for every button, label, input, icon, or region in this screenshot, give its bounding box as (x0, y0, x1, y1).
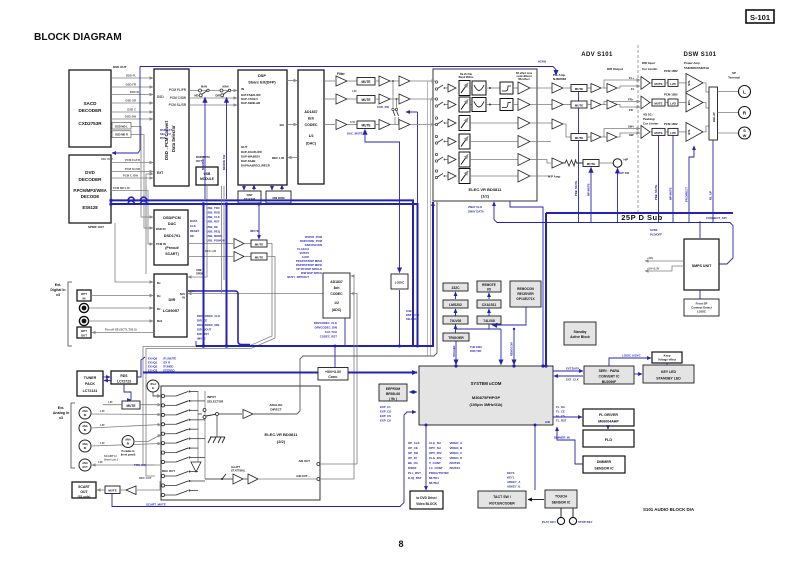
svg-text:DSD C: DSD C (127, 108, 136, 112)
wire ucom to eeprom arrows (410, 391, 418, 393)
svg-text:PCM C /SW: PCM C /SW (123, 174, 138, 178)
wire DIR control elbow blue (188, 291, 250, 345)
svg-text:GP1UE271X: GP1UE271X (516, 297, 535, 301)
svg-text:MAN: MAN (223, 85, 229, 89)
labels EXP port (380, 405, 392, 423)
elecvr row6 internals (435, 169, 551, 184)
svg-text:DSD OUT: DSD OUT (113, 65, 127, 69)
svg-text:REMOCON: REMOCON (517, 287, 534, 291)
wire DSD MD R (111, 131, 153, 228)
wire sur sw control (406, 111, 418, 113)
svg-text:D/RST: D/RST (408, 466, 417, 470)
svg-text:FL_CE: FL_CE (556, 410, 565, 414)
svg-text:/MUTE: /MUTE (197, 337, 206, 341)
svg-text:SCART In: SCART In (104, 454, 117, 458)
svg-text:USB_CLK: USB_CLK (207, 215, 220, 219)
svg-text:R: R (743, 111, 747, 117)
svg-text:OUT: OUT (196, 159, 202, 163)
wire keep to keyled (666, 363, 668, 365)
svg-text:STOP KEY: STOP KEY (578, 520, 593, 524)
svg-text:BTL: BTL (687, 129, 691, 135)
svg-text:FL_DA: FL_DA (556, 405, 565, 409)
wire analog direct to adc (253, 202, 437, 414)
wire sur control vertical (417, 112, 419, 346)
block 232C (443, 283, 468, 291)
svg-text:USB_REQ: USB_REQ (207, 230, 221, 234)
svg-text:DSD: DSD (157, 95, 164, 99)
switch MAN/DIR (216, 85, 231, 98)
svg-text:DSD MD R: DSD MD R (115, 133, 128, 137)
wire hpmute vertical (587, 168, 592, 223)
block SMPS UNIT (684, 239, 719, 290)
svg-text:CONNECT_SPI: CONNECT_SPI (706, 216, 727, 220)
wire row3 to elecvr (410, 124, 435, 126)
junction dot mute ctl (257, 202, 260, 205)
wire row1 to elecvr (410, 80, 435, 82)
svg-text:PRE_MUTE: PRE_MUTE (654, 185, 658, 200)
wire sur vertical a (392, 81, 394, 108)
block RELAY (709, 87, 718, 140)
rec out row 3 (161, 490, 198, 497)
switch analog direct (203, 409, 242, 419)
block NW ROM (266, 191, 291, 203)
svg-text:(DAC): (DAC) (306, 142, 317, 146)
junction dot bus ucom (541, 364, 544, 367)
wire sur vertical b (396, 99, 398, 108)
wire rec R down (146, 257, 275, 477)
wire PCM MD L/R dvd (111, 186, 153, 244)
svg-text:P.in off SE (SCTL,T20.3): P.in off SE (SCTL,T20.3) (105, 328, 137, 332)
junction dot bus y346 a (202, 344, 205, 347)
wire rds to mute blue (124, 384, 131, 400)
svg-text:PCM FL/FR: PCM FL/FR (169, 88, 187, 92)
wire seri-para to key led (634, 373, 642, 375)
svg-text:(front panel): (front panel) (121, 454, 136, 457)
bus usb vertical b (226, 204, 228, 346)
svg-text:DATA: DATA (190, 219, 197, 223)
block RDS LC72723 (111, 371, 137, 384)
svg-text:DIR: DIR (216, 94, 221, 98)
block USB module (196, 167, 218, 185)
svg-text:Standby: Standby (573, 330, 586, 334)
svg-text:OPV_DIV: OPV_DIV (429, 451, 442, 455)
block SACD decoder CXD2753R (69, 70, 111, 147)
junction dot bus y346 b (225, 344, 228, 347)
wire trigger to ucom (453, 341, 456, 365)
svg-text:BTL: BTL (687, 80, 691, 86)
svg-text:2WAY DATA: 2WAY DATA (468, 210, 484, 214)
rec out row 2 (161, 480, 205, 487)
block REMOCON RECEIVER (510, 281, 541, 307)
selector row 2 (161, 400, 205, 407)
svg-text:BUSY_DPF/OUT: BUSY_DPF/OUT (287, 275, 309, 279)
svg-text:TRIGGER: TRIGGER (448, 336, 464, 340)
wire DSP to DAC row1 (287, 80, 297, 82)
svg-text:LOGIC: LOGIC (697, 310, 706, 314)
junction dot dvd bus2 (109, 202, 112, 205)
amp to rec down triangle (191, 462, 201, 472)
bus horizontal y346 (196, 202, 433, 346)
svg-text:AD1837: AD1837 (304, 110, 317, 114)
block Standby Active Block (564, 322, 596, 345)
svg-text:RL_UP: RL_UP (709, 191, 713, 200)
wire scart amp to mute (120, 489, 126, 491)
block DSP Sharc EX(DFP) (238, 70, 287, 185)
svg-text:(1/2): (1/2) (481, 194, 490, 199)
svg-text:CXD2753R: CXD2753R (78, 121, 102, 126)
block ELEC.VR BD3811 1/2 outline (433, 69, 537, 201)
wire logic out down (399, 290, 401, 345)
labels DIR control blue (197, 314, 220, 341)
block DSD-PCM convert data selector (154, 69, 189, 186)
wire row1 to mute (347, 80, 357, 82)
mute box row1 (357, 78, 375, 86)
amp filter row1 (336, 76, 347, 86)
label SUB DSP MUTE SELCLK (406, 309, 420, 321)
svg-text:Conv.: Conv. (328, 375, 337, 379)
svg-text:PACK: PACK (85, 382, 95, 386)
svg-text:RST: RST (160, 136, 166, 140)
svg-text:VIDEO_A: VIDEO_A (450, 441, 464, 445)
labels ucom bottom col2 (429, 441, 450, 485)
svg-text:CLK TCH: CLK TCH (325, 330, 337, 334)
svg-text:L: L (743, 90, 746, 96)
svg-text:LMS202: LMS202 (449, 303, 462, 307)
wire DSD SL (111, 90, 153, 95)
svg-text:MUTE: MUTE (575, 103, 584, 107)
svg-text:DAP%A&RECL/RECR: DAP%A&RECL/RECR (241, 164, 270, 168)
svg-text:FR: FR (629, 108, 633, 112)
svg-text:EXP_CO: EXP_CO (380, 410, 392, 414)
svg-text:FL: FL (631, 87, 635, 91)
wire PCM FL/FR dvd (111, 158, 153, 163)
svg-text:AD1837: AD1837 (330, 280, 343, 284)
svg-text:OP_DO: OP_DO (408, 451, 419, 455)
svg-text:4Ω SC /: 4Ω SC / (643, 113, 654, 117)
block FLD (583, 430, 634, 447)
labels ADC control blue (314, 321, 338, 339)
elecvr row4 internals (435, 134, 551, 149)
connector COAX 2 (79, 316, 88, 325)
wire ADC control drop (344, 318, 346, 346)
svg-text:DIR_CE: DIR_CE (197, 319, 207, 323)
svg-text:DAC: DAC (168, 222, 176, 226)
preamp row1 (552, 76, 640, 93)
wire mute control rec (250, 206, 259, 239)
wire DSP to EE RAM (244, 185, 254, 190)
svg-text:x3: x3 (56, 293, 60, 297)
wire MAN/MD SW control blue (201, 98, 205, 200)
svg-text:Rx: Rx (157, 281, 161, 285)
wire gray vertical spdif pair b (223, 186, 225, 280)
wire selector to DSP row3 (189, 104, 237, 106)
svg-text:CXA1511: CXA1511 (482, 303, 497, 307)
svg-text:/MUTE0: /MUTE0 (450, 461, 461, 465)
svg-text:SACD: SACD (83, 101, 97, 106)
wire elecvr input rail b (430, 99, 432, 356)
svg-text:MUTE: MUTE (654, 82, 662, 86)
svg-text:Terminal: Terminal (728, 76, 740, 80)
block front SP connect detect logic (684, 299, 719, 316)
label SCART In (104, 454, 118, 462)
svg-text:SCART_MUTE: SCART_MUTE (146, 503, 166, 507)
amp scart (126, 486, 136, 495)
amp filter row2 (336, 94, 347, 104)
amp rec pre a (233, 474, 243, 484)
wire DAC mute control (347, 130, 400, 273)
switch SUR_SW (377, 105, 398, 125)
svg-text:OP_DI: OP_DI (408, 456, 417, 460)
svg-text:DSD FR: DSD FR (126, 83, 136, 87)
svg-text:AES: AES (180, 292, 186, 296)
wire smps to front sp (699, 290, 701, 299)
junction dot trigger (454, 364, 457, 367)
svg-text:A/B OUT ~: A/B OUT ~ (296, 474, 310, 478)
svg-text:USB_RXD: USB_RXD (207, 211, 220, 215)
svg-text:CLG_DIV: CLG_DIV (429, 456, 442, 460)
block REMOTE I/O (477, 281, 501, 292)
wire coax1 to DIR (89, 307, 154, 309)
svg-text:SP: SP (732, 71, 736, 75)
svg-text:PCM SL/SR: PCM SL/SR (125, 167, 140, 171)
svg-text:HC4W: HC4W (538, 60, 547, 64)
svg-text:USB: USB (196, 268, 202, 272)
svg-text:74LV08: 74LV08 (450, 319, 462, 323)
vol att label (231, 466, 246, 473)
svg-text:CLG_SH: CLG_SH (429, 441, 441, 445)
svg-text:L/R: L/R (352, 89, 357, 93)
svg-text:HP MUTE: HP MUTE (587, 183, 591, 196)
bus usb vertical a (203, 204, 205, 346)
ground wire (216, 416, 218, 438)
svg-text:PCM 1852: PCM 1852 (664, 69, 678, 73)
svg-text:CODEC: CODEC (330, 292, 343, 296)
svg-text:MUTE: MUTE (361, 124, 370, 128)
svg-text:TA8265K/TA8251H: TA8265K/TA8251H (684, 66, 709, 70)
label Power Amp TA8265K (684, 61, 709, 70)
arrow bus into elecvr1 (432, 202, 434, 206)
ana in portable (121, 435, 161, 457)
hp amp chain (542, 158, 629, 179)
svg-text:L/R: L/R (108, 400, 113, 404)
svg-text:ANA: ANA (82, 461, 88, 465)
labels EX-IQ (148, 357, 176, 373)
svg-text:DIR Input: DIR Input (642, 61, 655, 65)
svg-text:ANA: ANA (82, 409, 88, 413)
svg-text:CLK: CLK (190, 224, 196, 228)
svg-text:DAP-FA&B: DAP-FA&B (241, 159, 255, 163)
svg-text:BTL: BTL (687, 99, 691, 105)
svg-text:REC OUT: REC OUT (162, 469, 175, 473)
bus vertical dir labels (195, 341, 197, 346)
amp filter row3 (336, 120, 347, 130)
wire DSD SW (111, 115, 153, 120)
svg-text:SELCLK: SELCLK (406, 317, 417, 321)
svg-text:HP SW: HP SW (620, 171, 629, 175)
junction dot exiq ucom (425, 424, 428, 427)
svg-text:LC89057: LC89057 (163, 308, 180, 313)
svg-text:EEPROM: EEPROM (386, 387, 401, 391)
wire opt in to DIR (91, 295, 153, 297)
block TOUCH SENSOR IC (545, 490, 577, 508)
svg-text:Digital In: Digital In (50, 288, 65, 292)
svg-text:DIMMER_IN: DIMMER_IN (554, 436, 570, 440)
amp rec R (234, 252, 244, 262)
wire AES line DIR (188, 293, 323, 295)
svg-text:S101 AUDIO BLOCK DIA: S101 AUDIO BLOCK DIA (643, 507, 695, 512)
svg-text:P.PCM/MP3/WMA: P.PCM/MP3/WMA (73, 188, 106, 193)
svg-text:DSD SL: DSD SL (130, 90, 141, 94)
svg-text:DECODE: DECODE (81, 194, 100, 199)
svg-text:/MUTE1: /MUTE1 (450, 466, 461, 470)
wire ucom to fl driver (553, 405, 582, 423)
svg-text:DSD/PCM: DSD/PCM (163, 216, 181, 220)
svg-text:VIDEO_B: VIDEO_B (450, 446, 463, 450)
wire DSD FR (111, 83, 153, 88)
svg-text:+5V/+3.3V: +5V/+3.3V (647, 267, 660, 271)
svg-text:REMOTE: REMOTE (482, 283, 496, 287)
svg-text:DIG OUT: DIG OUT (101, 157, 113, 161)
svg-text:to DVD Drive/: to DVD Drive/ (416, 496, 436, 500)
wire MD/DIR SW control blue (222, 98, 227, 200)
svg-text:PCM 1852: PCM 1852 (664, 93, 678, 97)
svg-text:(S2 only): (S2 only) (78, 495, 91, 499)
speaker L (739, 86, 751, 98)
wire row1 mute to amps (375, 80, 399, 82)
svg-text:DAP-SW&L&R: DAP-SW&L&R (241, 101, 260, 105)
svg-text:PLAY KEY: PLAY KEY (542, 520, 556, 524)
wire left rail 25P to ucom (545, 213, 547, 366)
svg-text:RESET: RESET (190, 229, 200, 233)
junction dot tact (534, 424, 537, 427)
svg-text:PRE_MUTE: PRE_MUTE (574, 181, 578, 196)
svg-text:SCART): SCART) (165, 252, 179, 256)
svg-text:S.W: S.W (350, 120, 355, 124)
wire preamp top feed HC4W (538, 60, 547, 64)
svg-text:(ADC): (ADC) (332, 308, 342, 312)
block DSD/PCM DAC DSD1791 (154, 210, 188, 265)
svg-text:IN: IN (84, 413, 87, 417)
svg-text:DSW S101: DSW S101 (684, 52, 717, 58)
amp rec pre b (248, 474, 258, 484)
svg-text:Cur Limiter: Cur Limiter (643, 122, 659, 126)
amp row2 c (399, 94, 410, 104)
wire relay to L (718, 91, 739, 93)
elecvr row5 internals (435, 152, 542, 167)
svg-text:CODEC_RST: CODEC_RST (320, 335, 338, 339)
wire DIR to opt out (92, 328, 154, 333)
selector row 4 (161, 419, 205, 426)
selector row 5 (161, 428, 198, 435)
block 74LV08 right (477, 316, 501, 324)
svg-text:SMPS UNIT: SMPS UNIT (692, 264, 712, 268)
wire PCM C/SW dvd (111, 174, 153, 179)
svg-text:MUTE1: MUTE1 (429, 476, 439, 480)
svg-text:LC72723: LC72723 (117, 380, 131, 384)
svg-text:Cur Limiter: Cur Limiter (642, 67, 658, 71)
wire DAC rec L (188, 243, 233, 245)
svg-text:RXD,TXD: RXD,TXD (470, 349, 482, 353)
key PLAY (542, 508, 565, 525)
bus main blue line1 (111, 200, 413, 346)
rec out row 1 (161, 471, 198, 478)
svg-text:OUT: OUT (241, 145, 248, 149)
arrow into elecvr bottom (493, 202, 495, 206)
wire PCM SL/SR dvd (111, 167, 153, 172)
svg-text:OP_CE: OP_CE (408, 446, 418, 450)
svg-text:IN: IN (84, 428, 87, 432)
divider dashed line ADV/DSW (637, 45, 639, 213)
svg-text:ST ATT/BAL: ST ATT/BAL (231, 470, 246, 473)
svg-text:LVD: LVD (670, 131, 676, 135)
svg-text:Video BLOCK: Video BLOCK (416, 502, 438, 506)
svg-text:Filter: Filter (337, 72, 346, 76)
svg-text:EXP_CK: EXP_CK (380, 419, 391, 423)
svg-text:USB_MODE: USB_MODE (207, 234, 223, 238)
svg-text:Ext.: Ext. (58, 406, 65, 410)
svg-text:EXT_CLK: EXT_CLK (566, 378, 579, 382)
svg-text:EXP_CS: EXP_CS (380, 414, 391, 418)
svg-text:Sharc EX(DFP): Sharc EX(DFP) (248, 80, 276, 85)
svg-text:ANALOG: ANALOG (270, 403, 284, 407)
connector OPT OUT (77, 327, 91, 338)
wire relay control down (709, 140, 714, 222)
svg-text:M66004AHP: M66004AHP (598, 420, 619, 424)
junction dot dvd bus (109, 199, 112, 202)
wire row3 mute to amps (375, 124, 399, 126)
svg-text:KEY0: KEY0 (507, 471, 515, 475)
ana in 2 (79, 422, 161, 434)
svg-text:DIR Output: DIR Output (607, 67, 623, 71)
block keep voltage effect (652, 352, 682, 363)
mute box scart (105, 486, 120, 494)
junction dot remocon (512, 364, 515, 367)
wire USB SPDIF to DIR (188, 185, 207, 277)
svg-text:Analog In: Analog In (53, 411, 69, 415)
block +5V/+3.3V Conv (318, 368, 348, 381)
wire svr5 down to smps (699, 221, 701, 238)
svg-text:TUNER: TUNER (84, 376, 97, 380)
wire DAC rec R (188, 256, 233, 258)
svg-text:Voltage effect: Voltage effect (658, 358, 676, 362)
elecvr row3 internals (435, 116, 552, 131)
svg-text:IN: IN (241, 87, 244, 91)
svg-text:ADKEY_B: ADKEY_B (507, 485, 520, 489)
svg-text:Rx: Rx (157, 294, 161, 298)
svg-text:Ext.: Ext. (55, 283, 62, 287)
svg-text:(Preout/: (Preout/ (165, 246, 179, 250)
svg-text:IN: IN (83, 297, 86, 301)
bracket ext digital in (50, 282, 72, 346)
wire ucom to tact sw (507, 425, 535, 490)
svg-text:LC_CONT: LC_CONT (429, 466, 443, 470)
amp analog direct (243, 410, 253, 419)
svg-text:1/2: 1/2 (309, 134, 314, 138)
key STOP (569, 508, 592, 525)
block ELEC.VR BD3811 2/2 outline (161, 386, 320, 500)
svg-text:Mid effect: Mid effect (518, 78, 529, 81)
wire elecvr input rail a (427, 81, 429, 356)
svg-text:CONVERT IC: CONVERT IC (599, 375, 620, 379)
svg-text:DSD MD L: DSD MD L (115, 124, 128, 128)
preamp row2 (552, 98, 640, 113)
svg-text:( 9k ): ( 9k ) (389, 397, 397, 401)
selector row 3 (161, 409, 198, 416)
block DIMMER SENSOR IC (583, 456, 625, 473)
svg-text:MD: MD (194, 94, 198, 98)
svg-text:KEY1: KEY1 (507, 476, 515, 480)
wire mute3 dsw control down (654, 136, 659, 223)
